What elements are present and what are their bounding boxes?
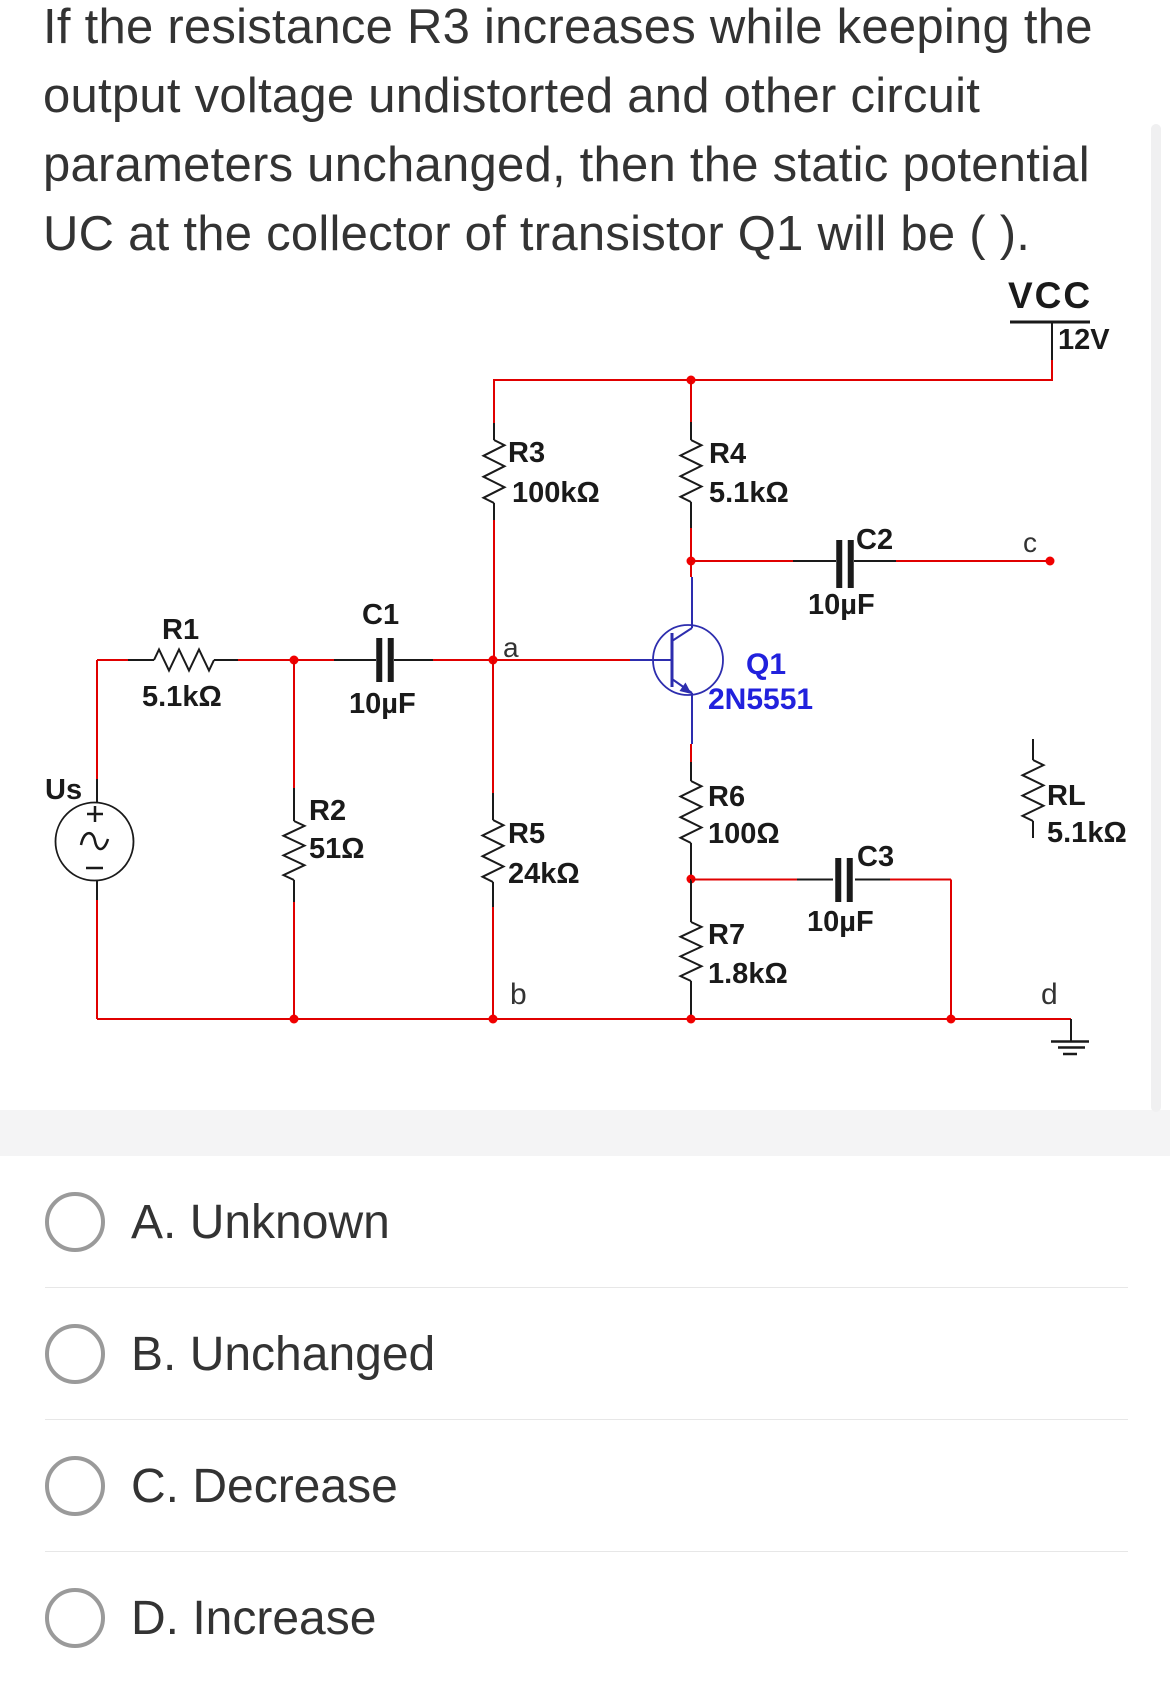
wire: collector vertical — [691, 561, 692, 628]
wire: R2 top lead — [293, 660, 295, 821]
resistor R2 — [284, 795, 365, 880]
svg-text:Q1: Q1 — [746, 648, 786, 681]
wire: R7 top lead — [690, 879, 692, 922]
svg-text:Us: Us — [45, 774, 82, 806]
wire: left vertical upper — [96, 660, 98, 803]
resistor R4 — [681, 438, 789, 509]
ground — [1051, 1019, 1089, 1054]
wire: R3 top lead — [493, 380, 495, 440]
resistor R1 — [128, 614, 238, 713]
svg-text:R4: R4 — [709, 438, 746, 470]
svg-text:VCC: VCC — [1008, 275, 1092, 316]
svg-text:10µF: 10µF — [349, 688, 416, 720]
svg-text:5.1kΩ: 5.1kΩ — [1047, 817, 1127, 849]
node b junction — [489, 1015, 498, 1024]
source Us — [45, 774, 134, 881]
svg-text:5.1kΩ: 5.1kΩ — [709, 477, 789, 509]
svg-text:2N5551: 2N5551 — [708, 683, 813, 716]
node: bottom R2 junction — [290, 1015, 299, 1024]
wire: R5 top lead — [492, 660, 494, 820]
svg-text:R2: R2 — [309, 795, 346, 827]
node label d — [1041, 978, 1058, 1011]
resistor RL — [1023, 739, 1127, 849]
svg-text:R6: R6 — [708, 781, 745, 813]
svg-text:b: b — [510, 978, 527, 1011]
wire: emitter node to C3 — [691, 879, 833, 881]
capacitor C3 — [807, 841, 894, 938]
wire: R4 top lead — [690, 380, 692, 440]
capacitor C1 — [349, 599, 416, 720]
wire: R7 bottom lead — [690, 981, 692, 1019]
svg-text:24kΩ: 24kΩ — [508, 858, 580, 890]
svg-text:a: a — [503, 632, 519, 663]
node a — [489, 656, 498, 665]
wire: top rail — [493, 379, 1052, 381]
wire: C1 to node a — [394, 659, 630, 661]
node label b — [510, 978, 527, 1011]
resistor R6 — [681, 781, 780, 850]
node label a — [503, 632, 519, 663]
node label c — [1023, 527, 1037, 558]
svg-text:51Ω: 51Ω — [309, 833, 365, 865]
svg-text:RL: RL — [1047, 780, 1086, 812]
svg-text:C2: C2 — [856, 524, 893, 556]
svg-text:R3: R3 — [508, 437, 545, 469]
resistor R3 — [484, 437, 600, 509]
wire: R5 bottom lead — [492, 882, 494, 1019]
wire: R3 bottom to node a — [493, 503, 495, 660]
svg-text:100kΩ: 100kΩ — [512, 477, 600, 509]
node: emitter feedback node — [687, 875, 696, 884]
node c terminal — [1046, 557, 1055, 566]
node: bottom R7 junction — [687, 1015, 696, 1024]
capacitor C2 — [808, 524, 893, 621]
node: top rail / R4 junction — [687, 376, 696, 385]
node: bottom C3 junction — [947, 1015, 956, 1024]
svg-text:d: d — [1041, 978, 1058, 1011]
node: R2 branch junction — [290, 656, 299, 665]
svg-text:12V: 12V — [1058, 324, 1110, 356]
svg-text:10µF: 10µF — [808, 589, 875, 621]
svg-text:5.1kΩ: 5.1kΩ — [142, 681, 222, 713]
svg-text:R1: R1 — [162, 614, 199, 646]
svg-text:R5: R5 — [508, 818, 545, 850]
svg-text:C3: C3 — [857, 841, 894, 873]
wire: R6 to emitter node — [690, 843, 692, 879]
wire: left rail start — [97, 659, 128, 661]
wire: C3 to right corner — [855, 880, 951, 1020]
wire: collector node to C2 — [691, 560, 836, 562]
wire: R4 bottom to collector node — [690, 502, 692, 561]
wire: bottom rail — [97, 1018, 1071, 1020]
svg-text:1.8kΩ: 1.8kΩ — [708, 958, 788, 990]
svg-text:c: c — [1023, 527, 1037, 558]
resistor R7 — [681, 919, 788, 990]
wire: emitter vertical — [691, 693, 692, 781]
wire: C2 to output terminal c — [854, 560, 1050, 562]
wire: R1 to node / C1 — [238, 659, 376, 661]
node: collector node — [687, 557, 696, 566]
resistor R5 — [483, 818, 580, 890]
svg-text:C1: C1 — [362, 599, 399, 631]
svg-text:R7: R7 — [708, 919, 745, 951]
svg-text:100Ω: 100Ω — [708, 818, 780, 850]
transistor Q1 2N5551 — [630, 625, 813, 716]
svg-text:10µF: 10µF — [807, 906, 874, 938]
power symbol VCC — [1008, 275, 1110, 361]
wire: R2 bottom lead — [293, 880, 295, 1019]
wire: VCC drop to top rail — [1051, 360, 1053, 381]
wire: left vertical lower — [96, 880, 98, 1019]
